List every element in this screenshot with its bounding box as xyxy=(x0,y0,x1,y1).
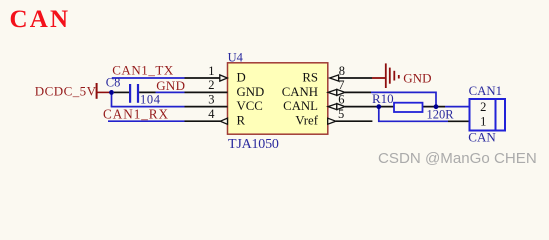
svg-text:R10: R10 xyxy=(372,91,394,106)
svg-text:CAN: CAN xyxy=(10,6,71,33)
svg-text:3: 3 xyxy=(208,92,214,106)
svg-text:2: 2 xyxy=(208,78,214,92)
svg-text:Vref: Vref xyxy=(295,114,318,128)
svg-text:CAN1: CAN1 xyxy=(469,84,502,98)
svg-text:120R: 120R xyxy=(427,107,455,121)
svg-text:TJA1050: TJA1050 xyxy=(228,137,279,152)
svg-text:GND: GND xyxy=(237,85,265,99)
svg-text:CAN1_RX: CAN1_RX xyxy=(103,106,169,121)
svg-text:CSDN @ManGo CHEN: CSDN @ManGo CHEN xyxy=(378,150,537,167)
svg-text:104: 104 xyxy=(140,93,161,107)
svg-text:1: 1 xyxy=(208,64,214,78)
svg-text:1: 1 xyxy=(480,115,486,129)
svg-text:8: 8 xyxy=(339,64,345,78)
svg-text:CANL: CANL xyxy=(283,99,318,113)
svg-text:2: 2 xyxy=(480,100,486,114)
svg-text:DCDC_5V: DCDC_5V xyxy=(35,83,97,98)
svg-text:GND: GND xyxy=(403,71,431,86)
svg-text:U4: U4 xyxy=(228,50,244,64)
svg-text:CAN1_TX: CAN1_TX xyxy=(112,63,174,78)
svg-text:D: D xyxy=(237,70,246,84)
svg-text:4: 4 xyxy=(208,107,215,121)
svg-text:GND: GND xyxy=(156,78,185,93)
svg-text:CAN: CAN xyxy=(468,130,496,145)
svg-text:R: R xyxy=(237,114,246,128)
svg-text:CANH: CANH xyxy=(282,85,318,99)
svg-text:RS: RS xyxy=(302,70,318,84)
svg-text:VCC: VCC xyxy=(237,99,263,113)
svg-text:C8: C8 xyxy=(106,76,121,90)
